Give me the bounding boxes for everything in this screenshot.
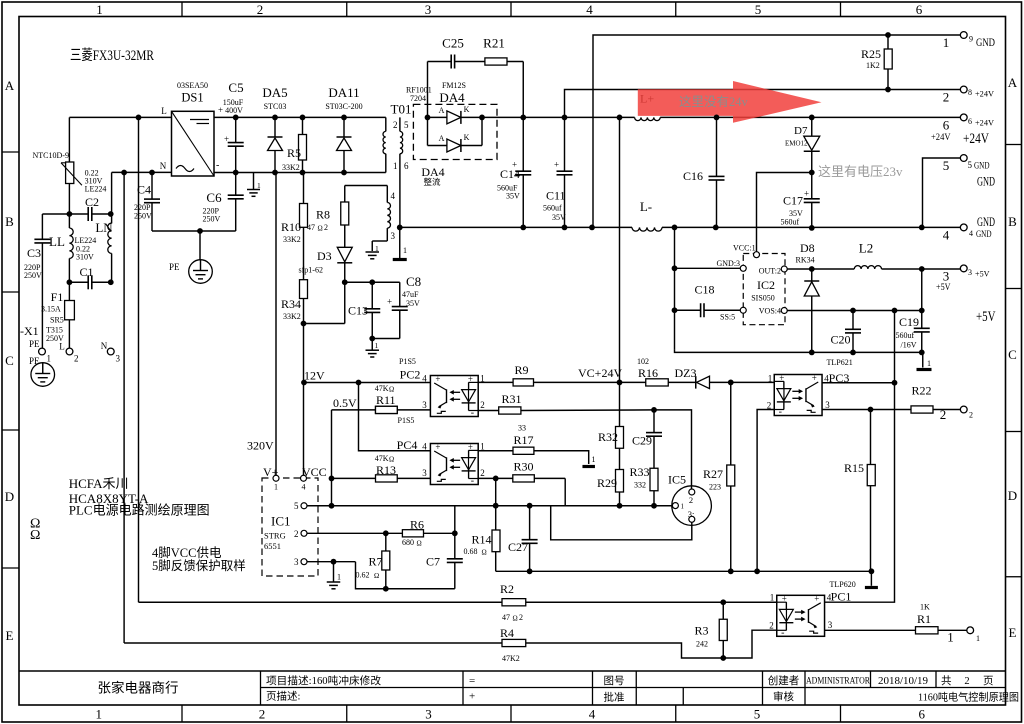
svg-text:C7: C7	[426, 555, 440, 569]
svg-text:C16: C16	[683, 169, 703, 183]
terminal 1 output	[947, 627, 980, 645]
svg-text:F1: F1	[51, 290, 64, 304]
svg-text:1: 1	[927, 359, 931, 368]
svg-text:R2: R2	[500, 582, 514, 596]
text line filter values	[85, 169, 107, 194]
svg-text:STC03: STC03	[264, 102, 287, 111]
svg-text:5: 5	[968, 160, 973, 170]
svg-text:Ω: Ω	[513, 615, 518, 623]
wire +24V rail 2	[660, 116, 960, 118]
svg-text:PLC电源电路测绘原理图: PLC电源电路测绘原理图	[69, 503, 210, 518]
svg-text:0.68: 0.68	[464, 547, 478, 556]
svg-text:680: 680	[402, 538, 414, 547]
svg-text:4: 4	[943, 228, 950, 243]
wire to PC3 anode	[731, 381, 775, 383]
svg-text:VCC: VCC	[302, 465, 327, 479]
svg-text:C29: C29	[632, 434, 652, 448]
svg-text:1: 1	[770, 593, 775, 603]
svg-text:R3: R3	[695, 624, 709, 638]
svg-text:1: 1	[257, 181, 261, 190]
text PLC title	[70, 47, 154, 64]
svg-text:2: 2	[480, 400, 485, 410]
svg-text:1: 1	[96, 2, 103, 17]
svg-text:C13: C13	[348, 304, 368, 318]
svg-text:2: 2	[519, 613, 523, 622]
wire C4-C6 bottom	[152, 230, 236, 232]
svg-text:项目描述:160吨冲床修改: 项目描述:160吨冲床修改	[266, 674, 382, 687]
svg-text:创建者: 创建者	[768, 674, 800, 687]
svg-text:223: 223	[709, 483, 721, 492]
svg-text:R30: R30	[514, 460, 534, 474]
terminal 5 GND	[923, 155, 996, 228]
svg-text:1: 1	[274, 483, 278, 492]
wire feedback net lower	[551, 506, 692, 540]
svg-text:TLP620: TLP620	[830, 580, 856, 589]
svg-text:3: 3	[825, 400, 830, 410]
svg-text:D3: D3	[317, 249, 332, 263]
capacitor C19	[896, 311, 930, 353]
wire feedback drop	[331, 410, 333, 506]
svg-text:PE: PE	[29, 356, 40, 366]
svg-text:+24V: +24V	[963, 131, 989, 147]
svg-text:GND: GND	[976, 35, 995, 49]
svg-text:整流: 整流	[423, 177, 441, 187]
svg-text:R29: R29	[597, 476, 617, 490]
svg-text:R9: R9	[515, 363, 529, 377]
svg-text:Ω: Ω	[318, 225, 323, 233]
svg-text:这里有电压23v: 这里有电压23v	[818, 164, 903, 179]
connector -X1	[20, 324, 121, 366]
note text pin4 pin5	[152, 545, 246, 573]
svg-text:LL: LL	[49, 234, 65, 249]
wire R2 line	[139, 601, 503, 603]
title block text	[98, 674, 1020, 704]
svg-text:33K2: 33K2	[283, 312, 301, 321]
terminal 4 GND	[943, 214, 995, 243]
svg-text:5脚反馈保护取样: 5脚反馈保护取样	[152, 558, 246, 573]
diode DA5	[262, 85, 287, 173]
svg-text:N: N	[101, 341, 108, 351]
wire VCC rail from R34	[303, 324, 305, 479]
resistor R33	[630, 465, 659, 506]
wire L rail tap	[138, 117, 140, 602]
svg-text:C2: C2	[85, 195, 99, 209]
resistor R34	[281, 280, 308, 324]
svg-text:2: 2	[393, 120, 398, 130]
svg-text:R34: R34	[281, 297, 301, 311]
resistor R25	[861, 35, 892, 90]
svg-text:N: N	[160, 161, 167, 171]
svg-text:47: 47	[307, 223, 315, 232]
svg-text:DZ3: DZ3	[675, 366, 697, 380]
capacitor C6	[203, 173, 244, 232]
resistor R13	[332, 454, 431, 482]
svg-text:1: 1	[592, 455, 596, 464]
resistor R1	[825, 603, 967, 634]
svg-text:HCFA禾川: HCFA禾川	[69, 476, 129, 491]
svg-text:1: 1	[337, 573, 341, 582]
label 320V	[247, 439, 274, 453]
wire PC4 supply drop	[359, 383, 431, 451]
svg-text:1: 1	[403, 246, 407, 255]
svg-text:VOS:4: VOS:4	[759, 307, 781, 316]
svg-text:+: +	[435, 374, 440, 384]
svg-text:R33: R33	[630, 465, 650, 479]
annotation text no 24v	[679, 94, 749, 109]
text LL values	[75, 236, 97, 262]
capacitor C17	[781, 173, 820, 228]
svg-text:T01: T01	[391, 102, 412, 117]
svg-text:6: 6	[919, 707, 926, 722]
svg-text:PC2: PC2	[400, 368, 421, 382]
svg-text:B: B	[1008, 214, 1017, 229]
svg-text:47uF: 47uF	[402, 290, 419, 299]
svg-text:L: L	[59, 342, 65, 352]
svg-text:33K2: 33K2	[282, 163, 300, 172]
transformer T01 primary	[383, 102, 411, 172]
svg-text:6: 6	[968, 117, 972, 126]
svg-text:EMO12: EMO12	[785, 140, 808, 148]
resistor R2	[500, 582, 723, 623]
svg-text:PE: PE	[29, 339, 40, 349]
wire 12V line	[304, 382, 430, 384]
svg-text:C3: C3	[27, 246, 41, 260]
svg-text:2: 2	[940, 407, 947, 422]
wire N rail taps	[123, 173, 125, 644]
label 0.5V	[333, 396, 357, 410]
wire NTC to C2 node	[68, 184, 70, 215]
svg-text:8: 8	[968, 88, 972, 97]
svg-text:PC1: PC1	[831, 590, 852, 604]
svg-text:L: L	[161, 106, 167, 116]
svg-text:R14: R14	[472, 533, 492, 547]
svg-text:2: 2	[74, 354, 79, 364]
wire PC2 c line R9	[478, 363, 619, 386]
resistor R4	[500, 626, 723, 663]
svg-text:560uf: 560uf	[896, 331, 915, 340]
capacitor C8	[372, 274, 421, 339]
shunt regulator IC5	[668, 473, 711, 526]
svg-text:FM12S: FM12S	[442, 81, 466, 90]
svg-text:2: 2	[257, 2, 264, 17]
svg-text:R31: R31	[502, 392, 522, 406]
diode D8	[796, 241, 820, 352]
svg-text:图号: 图号	[604, 675, 625, 687]
svg-text:3: 3	[968, 268, 972, 277]
svg-text:PE: PE	[169, 262, 180, 272]
svg-text:C8: C8	[406, 274, 421, 289]
wire IC1 pin2 line	[307, 532, 402, 534]
svg-text:审核: 审核	[773, 690, 794, 703]
svg-text:2: 2	[689, 495, 693, 505]
svg-text:+: +	[512, 160, 517, 170]
wire GND rail	[662, 226, 960, 228]
svg-text:-: -	[216, 160, 219, 171]
svg-text:2: 2	[943, 90, 950, 105]
svg-text:3: 3	[391, 231, 396, 241]
svg-text:+: +	[782, 594, 787, 604]
wire DC+ rail	[214, 117, 386, 131]
inductor L+	[635, 117, 661, 120]
capacitor C14	[497, 117, 531, 227]
svg-text:+: +	[469, 691, 475, 703]
svg-text:R6: R6	[410, 518, 424, 532]
wire 5V GND rail	[675, 350, 923, 353]
svg-text:2: 2	[259, 707, 266, 722]
fuse F1	[41, 282, 74, 351]
svg-text:sfp1-62: sfp1-62	[299, 266, 323, 275]
svg-text:47K2: 47K2	[502, 654, 520, 663]
svg-text:C18: C18	[695, 283, 715, 297]
svg-text:A: A	[1008, 75, 1018, 90]
diode D3	[299, 247, 353, 282]
svg-text:R4: R4	[500, 626, 514, 640]
annotation text 23v	[818, 164, 903, 179]
wire V+ rail	[275, 173, 277, 479]
wire PC1 collector riser	[894, 311, 896, 383]
svg-text:1: 1	[47, 354, 52, 364]
svg-text:1160吨电气控制原理图: 1160吨电气控制原理图	[918, 691, 1019, 704]
svg-text:-: -	[781, 627, 784, 638]
svg-text:2: 2	[964, 676, 969, 687]
svg-text:R25: R25	[861, 47, 881, 61]
svg-text:2: 2	[480, 468, 485, 478]
wire R30 drop	[564, 478, 566, 505]
resistor R17	[478, 424, 595, 467]
wire OUT line 2	[882, 268, 961, 270]
svg-text:C20: C20	[831, 333, 851, 347]
svg-text:IC1: IC1	[271, 514, 291, 529]
wire OUT line	[787, 268, 854, 270]
wire VCC1 from D7	[757, 173, 812, 252]
wire PC1 pin4 riser	[825, 383, 895, 602]
svg-text:C4: C4	[137, 183, 151, 197]
svg-text:D8: D8	[800, 241, 815, 255]
svg-text:A: A	[439, 134, 445, 143]
inductor LN	[95, 172, 113, 282]
svg-text:-: -	[779, 407, 782, 418]
svg-text:R8: R8	[316, 208, 330, 222]
svg-text:6: 6	[404, 161, 409, 171]
wire IC2 GND riser	[674, 227, 676, 350]
inductor L-	[632, 199, 662, 231]
svg-text:R22: R22	[912, 384, 932, 398]
svg-text:K: K	[464, 105, 470, 114]
svg-text:+24V: +24V	[931, 132, 951, 142]
svg-text:R13: R13	[376, 463, 396, 477]
capacitor C18	[675, 283, 741, 318]
svg-text:4: 4	[422, 374, 427, 384]
label L+	[640, 92, 654, 106]
svg-text:C27: C27	[508, 540, 528, 554]
svg-text:3: 3	[294, 557, 299, 567]
svg-text:IC5: IC5	[668, 473, 686, 487]
wire VOS line	[787, 310, 922, 312]
svg-text:张家电器商行: 张家电器商行	[98, 680, 179, 696]
svg-text:2018/10/19: 2018/10/19	[878, 675, 929, 687]
svg-text:L-: L-	[640, 199, 652, 214]
terminal 2 output	[940, 406, 973, 422]
svg-text:D: D	[5, 489, 14, 504]
inductor LL	[49, 214, 73, 282]
svg-text:+24V: +24V	[975, 90, 994, 99]
svg-text:5: 5	[294, 501, 299, 511]
svg-text:Ω: Ω	[389, 456, 394, 464]
svg-text:GND: GND	[977, 174, 995, 189]
svg-text:Ω: Ω	[374, 572, 379, 580]
svg-text:Ω: Ω	[417, 540, 422, 548]
svg-text:A: A	[5, 78, 15, 93]
terminal 6 +24V	[931, 114, 994, 147]
ground PE under DS1	[169, 231, 212, 283]
resistor R32	[598, 382, 624, 469]
svg-text:R5: R5	[287, 146, 301, 160]
svg-text:250V: 250V	[24, 271, 42, 280]
svg-text:4: 4	[586, 2, 593, 17]
svg-text:560uf: 560uf	[781, 218, 800, 227]
diode module DA4 box	[406, 81, 497, 187]
svg-text:C19: C19	[899, 315, 919, 329]
svg-text:1K2: 1K2	[866, 61, 880, 70]
terminal 1 GND	[943, 32, 995, 50]
svg-text:35V: 35V	[506, 192, 520, 201]
annotation red arrow	[638, 81, 822, 123]
resistor R29	[597, 470, 624, 506]
svg-text:9: 9	[969, 35, 973, 44]
wire VC24 riser	[619, 117, 621, 382]
diode D7	[785, 117, 820, 172]
svg-text:+: +	[779, 373, 784, 383]
wire 5V sense riser	[921, 269, 923, 311]
svg-text:0.62: 0.62	[356, 571, 370, 580]
svg-text:OUT:2: OUT:2	[759, 267, 781, 276]
svg-text:E: E	[6, 628, 14, 643]
svg-text:2: 2	[294, 529, 299, 539]
svg-text:A: A	[439, 106, 445, 115]
optocoupler PC4	[397, 438, 485, 487]
capacitor C13	[345, 282, 381, 338]
svg-text:Ω: Ω	[30, 528, 40, 543]
svg-text:STRG: STRG	[264, 531, 286, 541]
svg-text:1: 1	[375, 244, 379, 253]
svg-text:33: 33	[518, 424, 526, 433]
resistor R6	[402, 518, 455, 548]
svg-text:P1S5: P1S5	[399, 357, 416, 366]
wire to PC1 pin2	[723, 630, 777, 658]
svg-text:+: +	[554, 160, 559, 170]
svg-text:35V: 35V	[552, 213, 566, 222]
svg-text:4: 4	[589, 707, 596, 722]
svg-text:R27: R27	[703, 467, 723, 481]
svg-text:/16V: /16V	[901, 341, 917, 350]
svg-text:47K: 47K	[375, 454, 389, 463]
svg-text:D7: D7	[794, 125, 808, 137]
svg-text:47K: 47K	[375, 384, 389, 393]
svg-text:Ω: Ω	[389, 386, 394, 394]
svg-text:1: 1	[393, 161, 398, 171]
svg-text:-: -	[471, 476, 474, 487]
svg-text:1: 1	[947, 630, 954, 645]
capacitor C4	[134, 173, 160, 232]
svg-text:+: +	[468, 442, 473, 452]
svg-text:GND: GND	[976, 229, 992, 239]
svg-text:R32: R32	[598, 430, 618, 444]
svg-text:L2: L2	[859, 241, 873, 256]
wire PC3 pin4	[822, 382, 894, 384]
svg-text:C6: C6	[206, 190, 222, 205]
ground aux winding	[366, 244, 380, 259]
resistor R16	[620, 357, 669, 386]
optocoupler PC3	[767, 358, 853, 418]
optocoupler PC1	[769, 580, 855, 638]
resistor R11	[332, 384, 431, 425]
svg-text:1: 1	[96, 707, 103, 722]
resistor R15	[844, 410, 875, 572]
svg-text:+: +	[812, 373, 817, 383]
label 12V	[304, 369, 325, 383]
svg-text:250V: 250V	[203, 215, 221, 224]
svg-text:LN: LN	[95, 220, 113, 235]
svg-text:320V: 320V	[247, 439, 274, 453]
thermistor NTC10D-9	[33, 151, 82, 185]
resistor R30	[478, 460, 565, 483]
svg-text:DA5: DA5	[262, 85, 287, 100]
resistor R21	[483, 36, 523, 118]
wire to IC5 pin2	[654, 410, 692, 489]
diode DA11	[325, 85, 362, 173]
svg-text:+5V: +5V	[936, 282, 951, 292]
wire snubber riser	[427, 62, 429, 118]
title block	[19, 671, 1006, 705]
terminal 3 +5V	[936, 265, 996, 325]
capacitor C16	[683, 117, 725, 227]
svg-text:C17: C17	[783, 194, 803, 208]
svg-text:批准: 批准	[604, 691, 625, 704]
transformer T01 aux winding	[345, 186, 396, 252]
svg-text:DA4: DA4	[439, 90, 465, 105]
svg-text:0.5V: 0.5V	[333, 396, 357, 410]
resistor R10	[281, 173, 308, 280]
svg-text:332: 332	[634, 481, 646, 490]
svg-text:这里没有24v: 这里没有24v	[679, 94, 749, 109]
wire +24V rail	[482, 116, 635, 118]
svg-text:-X1: -X1	[20, 324, 39, 338]
transformer T01 secondary	[400, 117, 409, 227]
svg-text:GND: GND	[974, 161, 990, 171]
svg-text:1: 1	[943, 35, 950, 50]
svg-text:5: 5	[404, 120, 409, 130]
capacitor C2	[42, 195, 110, 221]
svg-text:+: +	[804, 189, 809, 199]
wire N input	[112, 106, 172, 172]
svg-text:1: 1	[480, 442, 485, 452]
ground low-side rail	[865, 571, 878, 587]
svg-text:3: 3	[116, 354, 121, 364]
svg-text:+: +	[435, 442, 440, 452]
svg-text:PC4: PC4	[397, 438, 418, 452]
svg-text:+5V: +5V	[975, 270, 990, 279]
regulator IC2	[717, 244, 788, 325]
svg-text:5: 5	[754, 707, 761, 722]
ground 5V rail	[917, 352, 932, 369]
wire R34 to D3 node	[304, 282, 345, 323]
svg-text:+: +	[387, 297, 392, 307]
svg-text:3: 3	[422, 400, 427, 410]
svg-text:7204: 7204	[410, 94, 426, 103]
diode DA4 upper	[428, 105, 483, 124]
resistor R7	[356, 533, 390, 588]
svg-text:Ω: Ω	[482, 549, 487, 557]
